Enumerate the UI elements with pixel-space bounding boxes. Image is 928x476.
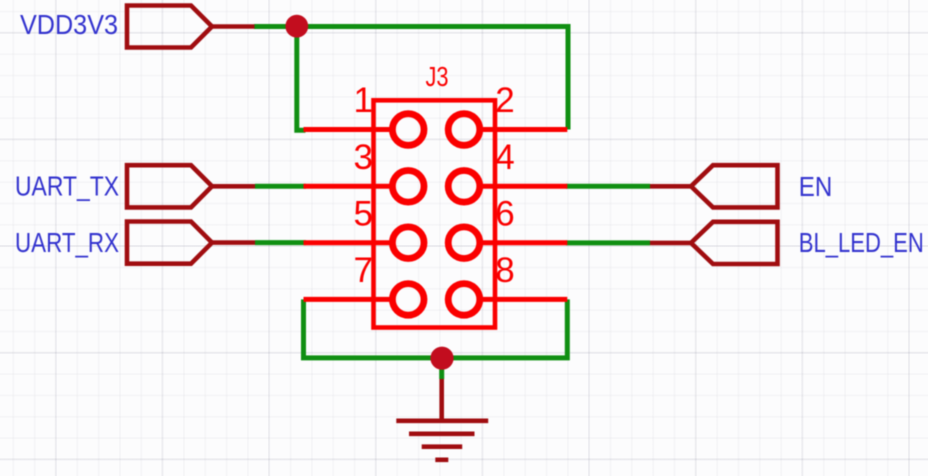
svg-text:3: 3	[353, 138, 372, 177]
svg-text:1: 1	[353, 81, 372, 120]
svg-text:J3: J3	[426, 61, 449, 92]
svg-text:UART_RX: UART_RX	[15, 227, 119, 258]
svg-text:5: 5	[353, 194, 372, 233]
svg-text:8: 8	[495, 251, 514, 290]
svg-text:VDD3V3: VDD3V3	[20, 9, 118, 40]
svg-text:2: 2	[495, 81, 514, 120]
svg-text:EN: EN	[799, 171, 833, 202]
svg-text:BL_LED_EN: BL_LED_EN	[799, 227, 924, 258]
svg-text:6: 6	[495, 194, 514, 233]
svg-text:4: 4	[495, 138, 514, 177]
svg-text:UART_TX: UART_TX	[15, 171, 119, 202]
svg-text:7: 7	[353, 251, 372, 290]
